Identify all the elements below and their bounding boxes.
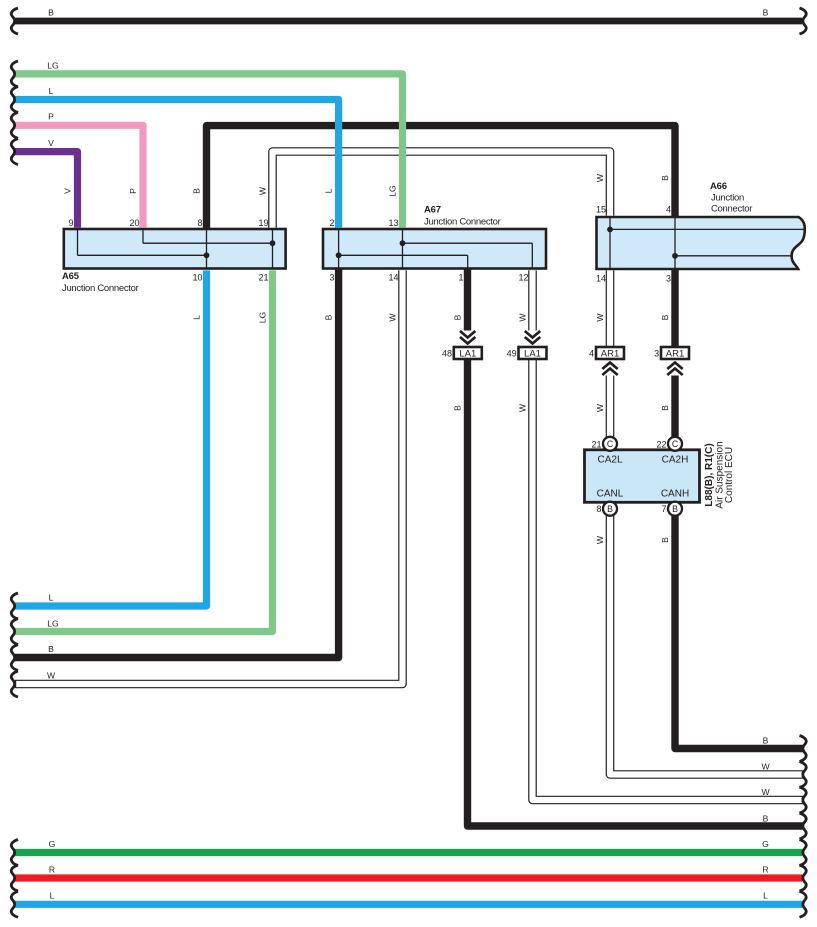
svg-text:4: 4 xyxy=(589,349,594,359)
svg-text:21: 21 xyxy=(591,439,601,449)
svg-text:A67: A67 xyxy=(424,205,441,216)
A65 internal bus 9-10 horizontal xyxy=(78,254,207,256)
svg-text:CA2L: CA2L xyxy=(597,455,622,466)
svg-text:CANL: CANL xyxy=(597,489,624,500)
svg-text:B: B xyxy=(660,405,670,411)
wire W from ECU pin 8 to right break (white, outlined) xyxy=(610,504,803,775)
svg-text:L: L xyxy=(324,188,334,193)
break at left of wire LG xyxy=(11,61,18,87)
svg-text:B: B xyxy=(660,537,670,543)
break at left of wire W lower xyxy=(11,671,18,697)
svg-text:B: B xyxy=(763,736,769,746)
wire B top horizontal (black) xyxy=(15,18,802,25)
svg-text:B: B xyxy=(672,504,678,514)
svg-text:C: C xyxy=(607,439,614,449)
svg-text:V: V xyxy=(48,138,54,148)
break at right of wire G xyxy=(800,840,807,866)
svg-text:LG: LG xyxy=(258,311,268,323)
connector LA1 pin 48 box xyxy=(454,347,482,360)
break at right of wire R xyxy=(800,865,807,891)
junction connector A67 body xyxy=(323,229,546,269)
svg-text:L: L xyxy=(192,315,202,320)
break at right of wire L bottom xyxy=(800,891,807,917)
A65 internal busbar pins 19-21 vertical xyxy=(272,229,274,269)
connector AR1 pin 4 box xyxy=(596,347,624,360)
svg-text:Junction Connector: Junction Connector xyxy=(62,283,139,294)
A65 internal busbar pins 8-10 vertical xyxy=(206,229,208,269)
svg-text:3: 3 xyxy=(654,349,659,359)
wire W from AR1 4 arrow to ECU pin 21 (white, outlined) xyxy=(606,376,615,449)
A66 internal busbar pins 4-3 vertical xyxy=(674,217,676,269)
svg-text:G: G xyxy=(49,839,56,849)
A65 junction dot pins 8-9-10 xyxy=(204,252,210,258)
svg-text:W: W xyxy=(258,186,268,195)
svg-text:B: B xyxy=(763,8,769,18)
svg-text:P: P xyxy=(128,188,138,194)
svg-text:LG: LG xyxy=(388,185,398,197)
wire B from ECU pin 7 to right break (black) xyxy=(675,502,803,749)
A65 internal busbar pin 20 drop xyxy=(142,229,144,243)
down arrow into LA1 48 xyxy=(460,331,475,344)
wire B from LA1 48 to bottom right break (black) xyxy=(468,358,804,826)
break at right of wire B from ECU 7 xyxy=(800,736,807,762)
wire B from A65 pin 8 to A66 pin 4 (black) xyxy=(207,126,676,230)
ECU pin 22 circle C xyxy=(668,437,682,451)
junction connector A65 body xyxy=(64,229,286,269)
svg-text:14: 14 xyxy=(596,274,606,284)
break at left of wire G xyxy=(11,840,18,866)
break at right of wire W from LA1 49 xyxy=(800,787,807,813)
svg-text:3: 3 xyxy=(666,274,671,284)
svg-text:W: W xyxy=(595,535,605,544)
wire P from left break to A65 pin 20 (pink) xyxy=(15,125,143,227)
svg-text:B: B xyxy=(453,405,463,411)
A67 internal busbar pins 2-3 vertical xyxy=(338,229,340,269)
wire B from A67 pin 3 to left break (black) xyxy=(15,268,339,658)
svg-text:15: 15 xyxy=(596,205,606,215)
svg-text:W: W xyxy=(595,313,605,322)
svg-text:W: W xyxy=(388,313,398,322)
break at right of wire B from LA1 48 xyxy=(800,813,807,839)
svg-text:CANH: CANH xyxy=(661,489,689,500)
junction connector A66 body (torn right edge) xyxy=(597,217,805,269)
svg-text:P: P xyxy=(48,112,54,122)
wire W from A66 pin 14 to AR1 4 (white, outlined) xyxy=(606,270,615,348)
connector LA1 pin 49 box xyxy=(519,347,547,360)
svg-text:13: 13 xyxy=(388,218,398,228)
svg-text:Control ECU: Control ECU xyxy=(724,447,735,503)
wire V from left break to A65 pin 9 (violet) xyxy=(15,152,78,228)
A67 junction dot pins 13-14-12 xyxy=(400,240,406,246)
A65 junction dot pins 19-20-21 xyxy=(270,240,276,246)
break at right of wire W from ECU 8 xyxy=(800,762,807,788)
svg-text:W: W xyxy=(518,313,528,322)
svg-text:A66: A66 xyxy=(710,181,727,192)
break at left of wire B lower xyxy=(11,645,18,671)
svg-text:W: W xyxy=(761,787,770,797)
svg-text:G: G xyxy=(762,839,769,849)
A67 junction dot pins 2-3-1 xyxy=(336,252,342,258)
break at left of wire V xyxy=(11,139,18,165)
up arrow out of AR1 3 xyxy=(667,363,682,376)
svg-text:L: L xyxy=(49,593,54,603)
svg-text:Junction Connector: Junction Connector xyxy=(424,217,501,228)
svg-text:AR1: AR1 xyxy=(601,349,619,360)
wire G bottom horizontal (green) xyxy=(15,849,802,856)
svg-text:9: 9 xyxy=(68,218,73,228)
break at left of wire R xyxy=(11,865,18,891)
svg-text:A65: A65 xyxy=(62,271,80,282)
svg-text:B: B xyxy=(48,644,54,654)
wire R bottom horizontal (red) xyxy=(15,874,802,881)
svg-text:2: 2 xyxy=(329,218,334,228)
A65 internal busbar pin 9 drop xyxy=(77,229,79,255)
break at left of wire L bottom xyxy=(11,891,18,917)
ECU pin 7 circle B xyxy=(668,502,682,516)
break at left of wire P xyxy=(11,112,18,138)
svg-text:B: B xyxy=(763,814,769,824)
svg-text:8: 8 xyxy=(596,504,601,514)
svg-text:L: L xyxy=(50,891,55,901)
wire LG from left break to A67 pin 13 (light green) xyxy=(15,74,403,228)
wire B from AR1 3 arrow to ECU pin 22 (black) xyxy=(671,376,678,451)
svg-text:22: 22 xyxy=(656,439,666,449)
down arrow into LA1 49 xyxy=(525,331,540,344)
svg-text:V: V xyxy=(63,188,73,194)
svg-text:LA1: LA1 xyxy=(524,349,541,360)
A67 internal bus 2-1 horizontal xyxy=(339,254,468,256)
svg-text:4: 4 xyxy=(666,205,671,215)
A66 internal bus from pin 3 to torn edge xyxy=(675,255,792,257)
svg-text:B: B xyxy=(607,504,613,514)
svg-text:W: W xyxy=(595,403,605,412)
up arrow out of AR1 4 xyxy=(602,363,617,376)
svg-text:LA1: LA1 xyxy=(459,349,476,360)
A66 junction dot pin 3 bus xyxy=(672,253,678,259)
svg-text:C: C xyxy=(672,439,679,449)
ECU pin 21 circle C xyxy=(603,437,617,451)
svg-text:7: 7 xyxy=(661,504,666,514)
break at left of wire L xyxy=(11,87,18,113)
svg-text:W: W xyxy=(47,671,56,681)
svg-text:R: R xyxy=(762,865,768,875)
svg-text:W: W xyxy=(595,173,605,182)
svg-text:14: 14 xyxy=(388,273,398,283)
svg-text:B: B xyxy=(453,314,463,320)
A67 internal busbar pins 13-14 vertical xyxy=(402,229,404,269)
svg-text:W: W xyxy=(518,403,528,412)
A66 internal bus from pin 15 to torn edge xyxy=(610,228,804,230)
svg-text:48: 48 xyxy=(442,349,452,359)
svg-text:L: L xyxy=(763,891,768,901)
svg-text:B: B xyxy=(48,8,54,18)
svg-text:B: B xyxy=(192,188,202,194)
svg-text:B: B xyxy=(324,314,334,320)
wire B from A66 pin 3 to AR1 3 (black) xyxy=(671,268,678,348)
svg-text:CA2H: CA2H xyxy=(662,455,689,466)
ECU L88(B),R1(C) body xyxy=(585,450,700,503)
svg-text:LG: LG xyxy=(47,619,59,629)
svg-text:B: B xyxy=(660,314,670,320)
wire W from A67 pin 14 to left break (white, outlined) xyxy=(15,270,403,684)
svg-text:3: 3 xyxy=(329,273,334,283)
svg-text:AR1: AR1 xyxy=(666,349,684,360)
A66 junction dot pin 15 bus xyxy=(607,227,613,233)
svg-text:L: L xyxy=(49,86,54,96)
svg-text:1: 1 xyxy=(458,273,463,283)
break at left of wire L lower xyxy=(11,593,18,619)
A67 internal busbar pin 12 riser xyxy=(531,243,533,268)
A67 internal bus 13-12 horizontal xyxy=(403,242,533,244)
break at right of wire B top xyxy=(800,8,807,34)
svg-text:8: 8 xyxy=(197,218,202,228)
svg-text:12: 12 xyxy=(518,273,528,283)
svg-text:Junction: Junction xyxy=(711,193,744,204)
svg-text:B: B xyxy=(660,175,670,181)
wire LG from A65 pin 21 to left break (light green) xyxy=(15,270,273,631)
wire W from A67 pin 12 to LA1 49 arrow (white, outlined) xyxy=(528,270,537,330)
svg-text:20: 20 xyxy=(129,218,139,228)
svg-text:10: 10 xyxy=(192,273,202,283)
wire W from A65 pin 19 to A66 pin 15 (white, outlined) xyxy=(273,152,611,228)
A65 internal bus 20-21 horizontal xyxy=(143,242,273,244)
A66 internal busbar pins 15-14 vertical xyxy=(609,217,611,269)
wire L bottom horizontal (blue) xyxy=(15,901,802,908)
svg-text:19: 19 xyxy=(258,218,268,228)
wire L from A65 pin 10 to left break (blue) xyxy=(15,270,207,606)
wire B from A67 pin 1 to LA1 48 arrow (black) xyxy=(464,268,471,331)
break at left of wire LG lower xyxy=(11,619,18,645)
svg-text:L88(B), R1(C): L88(B), R1(C) xyxy=(704,443,715,506)
svg-text:49: 49 xyxy=(507,349,517,359)
A67 internal busbar pin 1 riser xyxy=(467,255,469,268)
svg-text:W: W xyxy=(761,762,770,772)
connector AR1 pin 3 box xyxy=(661,347,689,360)
break at left of wire B top xyxy=(11,8,18,34)
svg-text:R: R xyxy=(49,865,55,875)
svg-text:LG: LG xyxy=(47,61,59,71)
wire L from left break to A67 pin 2 (blue) xyxy=(15,100,339,228)
svg-text:Connector: Connector xyxy=(711,204,752,215)
wire W from LA1 49 to bottom right break (white, outlined) xyxy=(533,358,804,800)
svg-text:21: 21 xyxy=(258,273,268,283)
ECU pin 8 circle B xyxy=(603,502,617,516)
